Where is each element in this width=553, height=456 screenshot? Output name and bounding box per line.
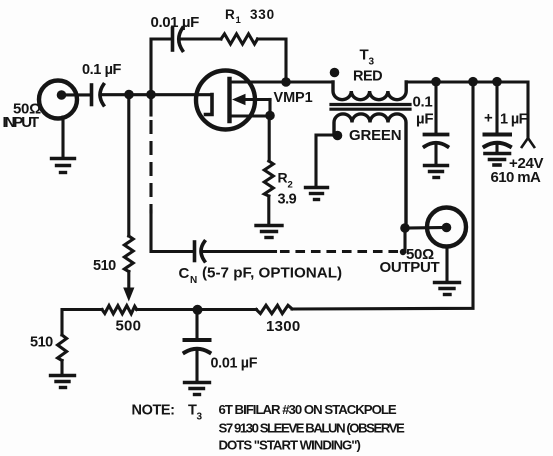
wire green end to ground	[316, 135, 334, 186]
node H (bias bottom node)	[193, 305, 203, 315]
ground (R2)	[256, 226, 282, 238]
node I (dashed end dot)	[400, 249, 406, 255]
wire feedback right vertical	[292, 82, 473, 309]
wire node H to C5	[195, 310, 198, 340]
wire rail to C3	[434, 82, 437, 134]
wire cap to gate node	[101, 93, 212, 96]
wire C5 to ground	[195, 351, 198, 381]
svg-text:610 mA: 610 mA	[491, 169, 542, 186]
label CN (5-7 pF, OPTIONAL)	[179, 265, 343, 287]
svg-text:R: R	[278, 170, 288, 186]
resistor R5 1300	[256, 305, 292, 313]
wire CN dashed to output	[202, 250, 276, 253]
connector J1 (input)	[39, 81, 91, 119]
wire C3 to ground	[434, 145, 437, 164]
svg-text:3.9: 3.9	[278, 192, 297, 208]
wire CN corner to cap	[151, 211, 194, 252]
svg-text:C: C	[179, 265, 190, 282]
svg-text:+: +	[484, 110, 493, 127]
svg-text:S7 9130 SLEEVE BALUN (OBSERVE: S7 9130 SLEEVE BALUN (OBSERVE	[219, 420, 406, 435]
ground (input)	[52, 159, 75, 173]
svg-text:GREEN: GREEN	[349, 127, 401, 144]
potentiometer R4 500	[102, 306, 137, 314]
ground (R6)	[51, 376, 75, 388]
ground (output)	[435, 283, 460, 295]
svg-text:3: 3	[197, 412, 203, 423]
svg-text:6T BIFILAR #30 ON STACKPOLE: 6T BIFILAR #30 ON STACKPOLE	[219, 402, 397, 417]
svg-text:2: 2	[288, 180, 293, 191]
svg-text:VMP1: VMP1	[274, 90, 313, 106]
svg-text:T: T	[360, 47, 369, 64]
resistor R1	[221, 34, 258, 44]
wire R2 to ground	[267, 196, 270, 224]
svg-text:510: 510	[93, 258, 116, 274]
wire R6 to ground	[60, 361, 63, 375]
label R2 3.9	[278, 170, 297, 208]
wire cap to R1	[180, 37, 221, 40]
capacitor C5 0.01uF	[185, 340, 210, 353]
transformer T3 primary winding	[333, 82, 406, 100]
capacitor C2 0.01uF (feedback)	[173, 28, 183, 51]
svg-text:1 µF: 1 µF	[500, 112, 528, 128]
connector J2 (output)	[427, 208, 466, 247]
svg-text:330: 330	[250, 7, 275, 22]
capacitor CN (5-7pF optional)	[195, 242, 205, 262]
wire to output connector	[405, 226, 447, 230]
svg-text:NOTE:: NOTE:	[132, 403, 175, 419]
label 0.1 uF	[413, 94, 434, 128]
note text	[132, 402, 406, 452]
ground (C4)	[485, 154, 510, 166]
svg-text:DOTS "START WINDING"): DOTS "START WINDING")	[219, 437, 361, 452]
wire pot right to node H	[137, 308, 198, 311]
label T3	[360, 47, 375, 68]
label +1uF	[484, 110, 528, 128]
transformer T3 core	[331, 105, 410, 110]
svg-text:1: 1	[236, 15, 242, 26]
node B (feedback junction)	[146, 90, 156, 100]
resistor R3 510 (upper)	[124, 236, 133, 272]
wire R3 to wiper arrow	[127, 272, 130, 291]
svg-text:INPUT: INPUT	[3, 114, 39, 131]
svg-text:1300: 1300	[266, 318, 301, 335]
capacitor C4 1uF (electrolytic)	[485, 135, 511, 147]
wire C4 to ground	[495, 145, 498, 152]
dot GREEN (phasing)	[333, 131, 343, 141]
wire node A down to R3	[127, 95, 130, 237]
wire feedback up	[151, 39, 170, 95]
svg-text:RED: RED	[353, 69, 382, 85]
svg-text:500: 500	[116, 318, 142, 335]
capacitor C3 0.1uF (decoupling)	[425, 135, 448, 147]
node J (output junction)	[400, 223, 410, 233]
svg-text:0.01 µF: 0.01 µF	[151, 14, 200, 31]
svg-text:3: 3	[369, 57, 375, 68]
node A (gate bias junction)	[124, 90, 134, 100]
resistor R2	[264, 161, 273, 196]
svg-text:510: 510	[30, 335, 53, 351]
wire output connector to ground	[445, 247, 448, 282]
transistor Q1 VMP1	[196, 71, 286, 130]
arrow +24V supply entry	[522, 138, 534, 147]
node E (rail junction 1)	[431, 77, 441, 87]
node C (drain junction)	[281, 77, 291, 87]
svg-text:0.01 µF: 0.01 µF	[211, 356, 258, 372]
svg-text:OUTPUT: OUTPUT	[380, 259, 440, 276]
ground (C5)	[185, 383, 210, 395]
capacitor C1 0.1uF (input series)	[92, 85, 104, 106]
resistor R6 510 (left)	[58, 335, 67, 361]
ground (C3)	[425, 166, 448, 178]
dot RED (phasing)	[330, 68, 340, 78]
wire source to R2	[268, 116, 271, 162]
label R1 330	[225, 7, 275, 26]
wire rail to C4	[495, 82, 498, 134]
node F (rail junction 2 feedback)	[468, 77, 478, 87]
svg-text:0.1 µF: 0.1 µF	[82, 62, 122, 78]
label 50ohm INPUT	[3, 101, 42, 131]
svg-text:R: R	[225, 7, 235, 22]
wire supply rail	[406, 82, 528, 138]
svg-text:(5-7 pF, OPTIONAL): (5-7 pF, OPTIONAL)	[202, 265, 342, 282]
transformer T3 secondary winding	[334, 114, 406, 228]
wire 1300 to bottom node	[198, 308, 257, 311]
node G (rail junction 3)	[492, 77, 502, 87]
wire output junction down to dashed	[403, 228, 406, 252]
svg-text:0.1: 0.1	[413, 94, 433, 111]
wire input connector to ground	[61, 117, 64, 157]
wire pot left down	[62, 310, 102, 336]
wire R1 to drain node	[258, 39, 287, 82]
wire drain to transformer	[286, 80, 333, 83]
svg-text:µF: µF	[416, 111, 433, 128]
svg-text:N: N	[190, 275, 197, 286]
arrow wiper (pot)	[123, 288, 134, 302]
node D (source junction)	[265, 111, 275, 121]
label 50ohm OUTPUT	[380, 246, 440, 276]
wire CN dashed vertical	[149, 96, 152, 115]
ground (transformer)	[306, 188, 328, 200]
